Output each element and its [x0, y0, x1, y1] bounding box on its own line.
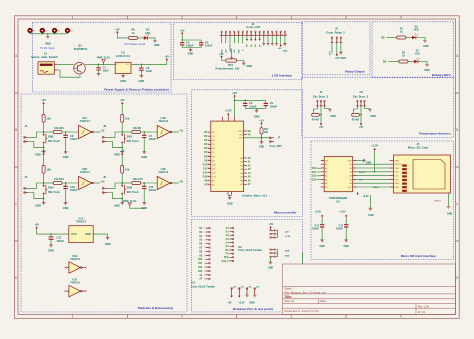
svg-text:VCC: VCC	[348, 187, 353, 189]
wires J2 pins	[332, 43, 341, 53]
svg-text:3: 3	[204, 236, 205, 238]
svg-text:A1: A1	[226, 231, 230, 234]
svg-text:+5V Power Good: +5V Power Good	[124, 42, 146, 46]
svg-text:GND: GND	[285, 251, 290, 253]
capacitor C13	[142, 183, 157, 203]
svg-text:GND: GND	[366, 163, 371, 165]
temp sensor group 2	[352, 91, 376, 129]
svg-text:+5V: +5V	[335, 57, 340, 60]
capacitor C9	[264, 100, 278, 108]
svg-text:TX: TX	[226, 254, 229, 256]
svg-text:GND: GND	[348, 160, 353, 162]
wire mcu +5v rail	[235, 98, 266, 117]
+3.3V symbol C14	[315, 211, 323, 218]
connector J3 pin numbers	[222, 34, 287, 36]
svg-text:Title:: Title:	[285, 295, 293, 299]
test point J17	[238, 286, 244, 297]
svg-text:100nF: 100nF	[70, 137, 78, 141]
svg-text:10: 10	[204, 263, 206, 265]
ground symbol J2	[339, 52, 343, 54]
+5V symbol temp1	[319, 123, 324, 130]
wire rst pin	[244, 137, 270, 139]
frame column numbers bottom	[72, 315, 402, 319]
svg-text:+3.3V: +3.3V	[225, 109, 232, 113]
resistor R15 horizontal	[122, 177, 157, 185]
svg-text:D11: D11	[203, 168, 208, 170]
svg-text:2: 2	[226, 34, 227, 36]
svg-text:SUD50P04: SUD50P04	[74, 47, 88, 51]
junction rail circuit1	[43, 131, 44, 132]
resistor R5	[352, 113, 360, 121]
debounce circuit 4	[103, 149, 184, 210]
svg-text:1: 1	[222, 34, 223, 36]
svg-text:KiCad E.D.A. kicad (6.0.10): KiCad E.D.A. kicad (6.0.10)	[285, 309, 319, 313]
wire regulator output	[131, 61, 167, 64]
svg-text:11: 11	[204, 267, 206, 269]
connector J3 pin stems	[222, 32, 285, 35]
+5V symbol R11 pullup	[259, 118, 264, 124]
svg-text:8: 8	[252, 34, 253, 36]
wire R2 to D7	[408, 61, 414, 63]
test point J19	[253, 286, 260, 297]
svg-text:Barrel_Jack_Switch: Barrel_Jack_Switch	[31, 55, 58, 59]
svg-text:100nF: 100nF	[57, 239, 65, 243]
svg-text:+5V: +5V	[232, 91, 237, 95]
svg-text:Gnd_2: Gnd_2	[221, 261, 229, 263]
svg-text:D7: D7	[199, 248, 203, 250]
resistor R12 vertical	[42, 156, 51, 183]
no-connect X marks U1F	[65, 290, 87, 292]
svg-text:E: E	[243, 49, 245, 51]
svg-text:D2: D2	[199, 228, 203, 230]
level shifter input labels	[312, 168, 317, 181]
svg-text:D4: D4	[199, 235, 203, 238]
resistor R8 horizontal	[122, 126, 157, 134]
connector J9	[103, 175, 107, 193]
svg-text:GND: GND	[48, 248, 54, 252]
sd card J5 body	[394, 155, 451, 193]
svg-text:H2: H2	[45, 30, 47, 32]
svg-text:10k R8: 10k R8	[133, 126, 142, 130]
mounting hole H4	[66, 29, 73, 33]
svg-text:SCK: SCK	[224, 257, 229, 259]
svg-text:1: 1	[72, 16, 74, 20]
svg-text:J11: J11	[359, 91, 364, 94]
svg-text:16: 16	[285, 34, 287, 36]
ground symbol D7	[424, 65, 430, 72]
junction C1	[98, 64, 99, 65]
ground symbol U3	[121, 76, 125, 78]
debounce circuit 1	[24, 98, 105, 159]
wire mcu bottom gnd	[228, 195, 231, 197]
svg-text:A7: A7	[248, 183, 252, 186]
svg-text:File: Mangos_Box_V2.kicad_sch: File: Mangos_Box_V2.kicad_sch	[285, 290, 327, 294]
svg-text:A4: A4	[101, 179, 105, 183]
wires U2 to J5	[356, 164, 390, 187]
svg-text:D13: D13	[203, 177, 208, 179]
section box relay output	[302, 22, 370, 75]
led D1	[144, 34, 149, 40]
svg-text:+3.3V: +3.3V	[285, 236, 291, 238]
level shifter left stubs	[321, 160, 324, 187]
svg-text:A1: A1	[325, 163, 327, 166]
sd card contact pads	[402, 165, 407, 192]
level shifter pin names	[325, 159, 352, 189]
svg-text:+5V: +5V	[41, 98, 46, 102]
svg-text:10k R10: 10k R10	[54, 126, 64, 130]
svg-text:A5: A5	[180, 179, 184, 183]
svg-text:10k: 10k	[46, 168, 51, 172]
svg-text:Conn_Relay_2: Conn_Relay_2	[326, 30, 345, 34]
svg-text:10k: 10k	[125, 168, 130, 172]
connector J5b	[24, 175, 28, 193]
potentiometer RV1	[226, 56, 237, 62]
title block row lines	[282, 287, 455, 309]
svg-text:A3: A3	[226, 238, 230, 241]
svg-text:GND: GND	[35, 152, 41, 156]
svg-text:SW_Push: SW_Push	[48, 139, 60, 143]
svg-text:D9: D9	[199, 255, 203, 257]
svg-text:D10: D10	[198, 259, 203, 261]
svg-text:Arduino_Nano_v3.x: Arduino_Nano_v3.x	[242, 194, 268, 198]
svg-text:+3.3V: +3.3V	[238, 302, 245, 304]
svg-text:A2: A2	[101, 128, 105, 132]
svg-text:B6: B6	[349, 183, 351, 185]
svg-text:SW1: SW1	[127, 134, 133, 138]
svg-text:+5V: +5V	[115, 27, 120, 31]
svg-text:GND: GND	[63, 206, 69, 210]
svg-text:+5V: +5V	[269, 224, 274, 226]
svg-text:+5V: +5V	[120, 149, 125, 153]
svg-text:Debug LED's: Debug LED's	[432, 73, 451, 77]
svg-text:MOSI: MOSI	[359, 172, 365, 174]
breakout col1 pin numbers	[204, 228, 206, 281]
svg-text:D9: D9	[383, 60, 387, 64]
svg-text:J18: J18	[248, 286, 252, 288]
net labels group b	[285, 251, 290, 258]
svg-text:11: 11	[264, 34, 266, 36]
resistor R13 horizontal	[44, 177, 79, 185]
svg-text:J16: J16	[233, 286, 237, 288]
svg-text:A0: A0	[226, 227, 230, 230]
temp sensor group 1	[312, 91, 336, 129]
sd card pin names	[395, 159, 404, 189]
junction C3	[141, 64, 142, 65]
svg-text:J17: J17	[241, 286, 245, 288]
svg-text:74HC14: 74HC14	[70, 257, 80, 261]
+5V symbol RV1	[219, 52, 224, 58]
section box temperature sensors	[302, 77, 454, 137]
frame column ticks	[127, 16, 346, 319]
svg-text:SW_Push: SW_Push	[127, 190, 139, 194]
svg-text:R5 4k7: R5 4k7	[352, 118, 360, 121]
mcu left pin numbers	[207, 131, 209, 186]
mounting hole H3	[53, 29, 60, 33]
svg-text:Id: 1/1: Id: 1/1	[418, 310, 426, 314]
wire RV1 left	[222, 58, 226, 60]
barrel jack J4	[38, 62, 54, 74]
svg-text:LED: LED	[414, 29, 419, 32]
wire R4 to +5V rail	[319, 114, 321, 116]
svg-text:3: 3	[291, 315, 293, 319]
test point J18	[245, 286, 252, 297]
svg-text:RX: RX	[248, 131, 252, 133]
switch SW1	[122, 132, 139, 148]
title block column dividers	[319, 299, 417, 315]
svg-text:12: 12	[204, 271, 206, 273]
svg-text:A4: A4	[248, 172, 252, 175]
svg-text:LCD Interface: LCD Interface	[272, 73, 292, 77]
svg-text:J7: J7	[278, 138, 281, 140]
svg-text:SW2: SW2	[48, 134, 54, 138]
svg-text:+5V: +5V	[219, 52, 224, 56]
svg-text:+5V: +5V	[259, 118, 264, 122]
svg-text:CMD: CMD	[395, 168, 400, 170]
svg-text:SW4: SW4	[48, 185, 54, 189]
svg-text:+3.3V: +3.3V	[363, 196, 370, 198]
svg-text:10k: 10k	[264, 131, 269, 134]
svg-text:+5V: +5V	[227, 302, 232, 304]
svg-text:4: 4	[235, 34, 236, 36]
svg-text:TXB0108DQSR: TXB0108DQSR	[329, 196, 348, 200]
wire U2 gnd	[369, 195, 371, 208]
svg-text:D11: D11	[198, 263, 203, 265]
wire mounting hole bus	[30, 32, 68, 36]
resistor R11b vertical	[121, 105, 130, 132]
svg-text:B: B	[456, 128, 458, 132]
svg-text:74HC14: 74HC14	[70, 281, 80, 285]
svg-text:+3.3V: +3.3V	[371, 143, 378, 147]
svg-text:2: 2	[181, 315, 183, 319]
junction lcd caps	[182, 39, 183, 40]
wire R1 to D3	[406, 37, 412, 39]
connector J14 group a	[270, 229, 278, 239]
connector J3 pin pads	[221, 31, 286, 32]
mcu right pins rx tx	[239, 131, 252, 137]
svg-text:J2: J2	[335, 27, 338, 31]
global labels mcu left	[203, 132, 208, 187]
+5V symbol power good	[116, 31, 118, 34]
section box breakout pins	[192, 220, 303, 313]
svg-text:J9: J9	[103, 175, 106, 179]
svg-text:GND: GND	[368, 214, 374, 217]
svg-text:A7: A7	[199, 278, 203, 281]
svg-text:DAT2: DAT2	[395, 159, 400, 162]
switch SW4	[43, 183, 60, 199]
ground symbol C11	[48, 245, 54, 253]
svg-text:Potentiometer_LIN: Potentiometer_LIN	[215, 66, 239, 70]
wire R6 to D1	[138, 37, 144, 39]
svg-text:2: 2	[181, 16, 183, 20]
svg-text:GND: GND	[188, 51, 194, 55]
svg-text:Switches & Debouncing: Switches & Debouncing	[138, 306, 173, 310]
svg-text:3: 3	[291, 16, 293, 20]
svg-text:GND: GND	[141, 155, 147, 159]
svg-text:10k: 10k	[125, 117, 130, 121]
svg-text:Breakout Pins & test points: Breakout Pins & test points	[233, 307, 274, 311]
svg-text:13: 13	[204, 275, 206, 277]
inverter U1D	[79, 167, 94, 190]
junction temp1	[320, 114, 321, 115]
+3.3V symbol sd	[371, 143, 378, 151]
svg-text:100nF: 100nF	[270, 104, 278, 108]
frame column numbers top	[72, 16, 402, 20]
svg-text:SW3: SW3	[127, 185, 133, 189]
svg-text:12: 12	[268, 34, 270, 36]
svg-text:6: 6	[243, 34, 244, 36]
svg-text:15: 15	[281, 34, 283, 36]
svg-text:D12: D12	[198, 267, 203, 269]
svg-text:J19: J19	[256, 286, 260, 288]
svg-text:GND: GND	[63, 155, 69, 159]
ground symbol under holes	[46, 37, 50, 39]
svg-text:J6: J6	[320, 91, 323, 94]
ground symbol C3	[140, 76, 144, 78]
svg-text:RX: RX	[225, 250, 229, 252]
svg-text:Ext_Sens_2: Ext_Sens_2	[313, 94, 329, 98]
wire J11 middle pin down	[360, 107, 362, 123]
wire J11 right pin to gnd	[364, 107, 370, 110]
svg-text:GND: GND	[268, 267, 273, 269]
svg-text:1k: 1k	[400, 31, 403, 34]
regulator pin names	[116, 64, 130, 66]
connector J3 body bar	[220, 35, 287, 37]
connector J7 rst	[270, 137, 283, 148]
svg-text:TXD: TXD	[239, 134, 244, 136]
capacitor C6	[243, 100, 257, 108]
svg-text:7V-9V Input: 7V-9V Input	[40, 46, 55, 50]
svg-text:A3: A3	[180, 128, 184, 132]
resistor R10 horizontal	[44, 126, 79, 134]
svg-text:D8: D8	[199, 251, 203, 253]
mcu left pin stubs	[208, 132, 211, 185]
svg-text:GND: GND	[154, 43, 160, 47]
wire U1C gnd	[93, 234, 107, 237]
svg-text:Conn_RST: Conn_RST	[270, 145, 283, 148]
svg-text:13: 13	[273, 34, 275, 36]
capacitor C5	[180, 40, 194, 48]
svg-text:+5V: +5V	[164, 55, 169, 59]
svg-text:GND: GND	[105, 242, 111, 246]
svg-text:DAT1: DAT1	[395, 186, 400, 189]
svg-text:5: 5	[204, 243, 205, 245]
capacitor C3	[139, 64, 143, 75]
wire caps bottom	[245, 108, 266, 110]
wire D7 to gnd	[418, 62, 427, 65]
svg-text:Size: A4: Size: A4	[285, 299, 295, 303]
ground symbol U2	[368, 208, 374, 217]
+5V symbol J3 pin15	[280, 44, 282, 47]
global labels breakout col1	[198, 228, 203, 281]
svg-text:9: 9	[256, 34, 257, 36]
junction dots hole bus	[42, 33, 56, 34]
junction mcu rail b	[245, 100, 246, 101]
svg-text:Power Supply & Reverse Polarit: Power Supply & Reverse Polarity protecti…	[104, 87, 169, 91]
svg-text:GND: GND	[139, 79, 145, 83]
wire J6 middle pin down	[320, 107, 322, 123]
svg-text:A2: A2	[325, 167, 327, 170]
svg-text:74HC14: 74HC14	[158, 119, 168, 123]
svg-text:Microcontroller: Microcontroller	[274, 210, 297, 214]
connector J15 group b	[270, 248, 278, 258]
svg-text:A3: A3	[248, 168, 252, 171]
svg-text:D5: D5	[199, 240, 203, 242]
resistor R9 vertical	[42, 105, 51, 132]
svg-text:SHIELD: SHIELD	[434, 201, 442, 203]
svg-text:100nF: 100nF	[149, 137, 157, 141]
switch SW2	[43, 132, 60, 148]
section box lcd interface	[173, 22, 302, 79]
junction temp2	[360, 114, 361, 115]
svg-text:A6: A6	[325, 182, 327, 185]
capacitor C4	[199, 41, 213, 48]
wire breakout gnd drop	[302, 252, 304, 264]
junction cap circuit1	[65, 131, 66, 132]
+5V symbol U1C	[34, 223, 39, 230]
wire J1 bottom to switch gnd	[28, 142, 43, 148]
ground symbol cap circuit1	[63, 152, 69, 159]
capacitor C8	[63, 132, 78, 152]
section box microcontroller	[192, 90, 303, 217]
svg-text:B: B	[15, 128, 17, 132]
regulator ground pin	[122, 74, 124, 76]
svg-text:DAT0: DAT0	[395, 182, 400, 185]
svg-text:B3: B3	[349, 172, 351, 174]
svg-text:GND: GND	[344, 245, 350, 248]
ground symbol U1C	[105, 237, 111, 245]
global labels breakout col2	[221, 227, 229, 263]
+5V symbol lcd caps	[180, 28, 185, 35]
svg-text:LED: LED	[415, 53, 420, 56]
ground symbol power good	[153, 41, 157, 43]
svg-text:14: 14	[204, 278, 206, 280]
svg-text:Temperature Sensors: Temperature Sensors	[419, 131, 451, 135]
svg-text:GND: GND	[246, 64, 252, 68]
wire power good	[117, 34, 128, 38]
junction rst	[261, 137, 262, 138]
svg-text:H3: H3	[57, 30, 59, 32]
wire jack lower loop	[57, 70, 80, 77]
svg-text:SW_Push: SW_Push	[127, 139, 139, 143]
pwr_flag row2 symbol	[128, 203, 144, 208]
test point J16	[231, 286, 237, 297]
svg-text:GND: GND	[35, 203, 41, 207]
wire jack to Q1	[57, 63, 74, 65]
ground symbol temp1	[328, 110, 336, 119]
+5V symbol mcu	[232, 91, 237, 98]
svg-text:H1: H1	[33, 30, 35, 32]
frame row ticks	[14, 93, 459, 241]
svg-text:D6: D6	[199, 244, 203, 246]
svg-text:10uF: 10uF	[103, 69, 109, 73]
wire U1A output	[93, 131, 100, 133]
power unit U1C	[69, 216, 93, 242]
svg-text:+5V: +5V	[120, 98, 125, 102]
svg-text:J13: J13	[191, 283, 196, 285]
wire lcd caps bottom	[182, 48, 201, 50]
mcu right pins A0-A7	[240, 157, 251, 186]
ground symbol group b	[268, 257, 273, 269]
svg-text:D10: D10	[312, 168, 317, 170]
svg-text:D12: D12	[203, 173, 208, 175]
svg-text:GND: GND	[254, 115, 260, 119]
resistor R11 pullup	[260, 125, 269, 138]
ground symbol mcu	[227, 198, 233, 206]
net labels group a	[285, 231, 291, 238]
svg-text:22uF: 22uF	[146, 69, 152, 73]
svg-text:GND: GND	[341, 57, 347, 60]
frame row letters right	[456, 54, 459, 280]
